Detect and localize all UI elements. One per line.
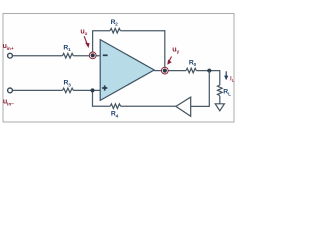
terminal uin- xyxy=(8,88,13,93)
wire: R3 to op-amp + input xyxy=(73,89,100,91)
svg-text:in−: in− xyxy=(7,101,14,107)
svg-text:L: L xyxy=(228,91,231,96)
svg-text:y: y xyxy=(177,49,180,54)
resistor R1 xyxy=(63,53,74,58)
svg-text:0: 0 xyxy=(194,62,197,67)
wire: RL to ground xyxy=(219,96,221,104)
wire: feedback vertical up from node ux xyxy=(92,31,94,56)
svg-text:4: 4 xyxy=(116,113,119,118)
wire: feedback top horizontal right part xyxy=(120,30,165,32)
svg-text:3: 3 xyxy=(68,82,71,87)
terminal uin+ xyxy=(8,53,13,58)
wire: junction down to buffer input xyxy=(191,71,209,107)
svg-text:x: x xyxy=(85,31,88,36)
op-amp plus sign xyxy=(102,85,107,90)
op-amp minus sign xyxy=(103,54,108,56)
resistor RL (vertical) xyxy=(218,85,223,96)
resistor R0 xyxy=(186,68,196,73)
arrow for ux xyxy=(84,36,89,48)
resistor R4 xyxy=(110,104,120,109)
junction after R0 xyxy=(207,69,211,73)
wire: uin+ to R1 xyxy=(12,55,62,57)
wire: R4 to + input junction xyxy=(93,90,111,106)
arrow for uy xyxy=(167,57,171,65)
wire: op-amp output to node uy xyxy=(154,70,162,72)
ground xyxy=(215,104,224,111)
wire: R1 to node ux xyxy=(73,55,100,57)
wire: feedback vertical down to node uy xyxy=(164,30,166,70)
arrow for IL current xyxy=(224,71,228,80)
junction at + input xyxy=(91,88,95,92)
resistor R2 xyxy=(110,28,120,33)
wire: feedback top horizontal left part xyxy=(92,30,110,32)
wire: node uy to R0 xyxy=(168,70,187,72)
svg-text:in+: in+ xyxy=(7,46,14,52)
resistor R3 xyxy=(63,88,74,93)
svg-text:1: 1 xyxy=(68,47,71,52)
wire: buffer output to R4 xyxy=(121,105,176,107)
op-amp U1 xyxy=(100,40,154,101)
node uy xyxy=(161,67,168,74)
wire: uin- to R3 xyxy=(12,89,62,91)
node ux xyxy=(89,52,96,59)
buffer A1 xyxy=(176,97,191,116)
svg-text:L: L xyxy=(232,78,235,83)
svg-text:2: 2 xyxy=(115,22,118,27)
wire: R0 to corner, right then down xyxy=(196,71,219,85)
